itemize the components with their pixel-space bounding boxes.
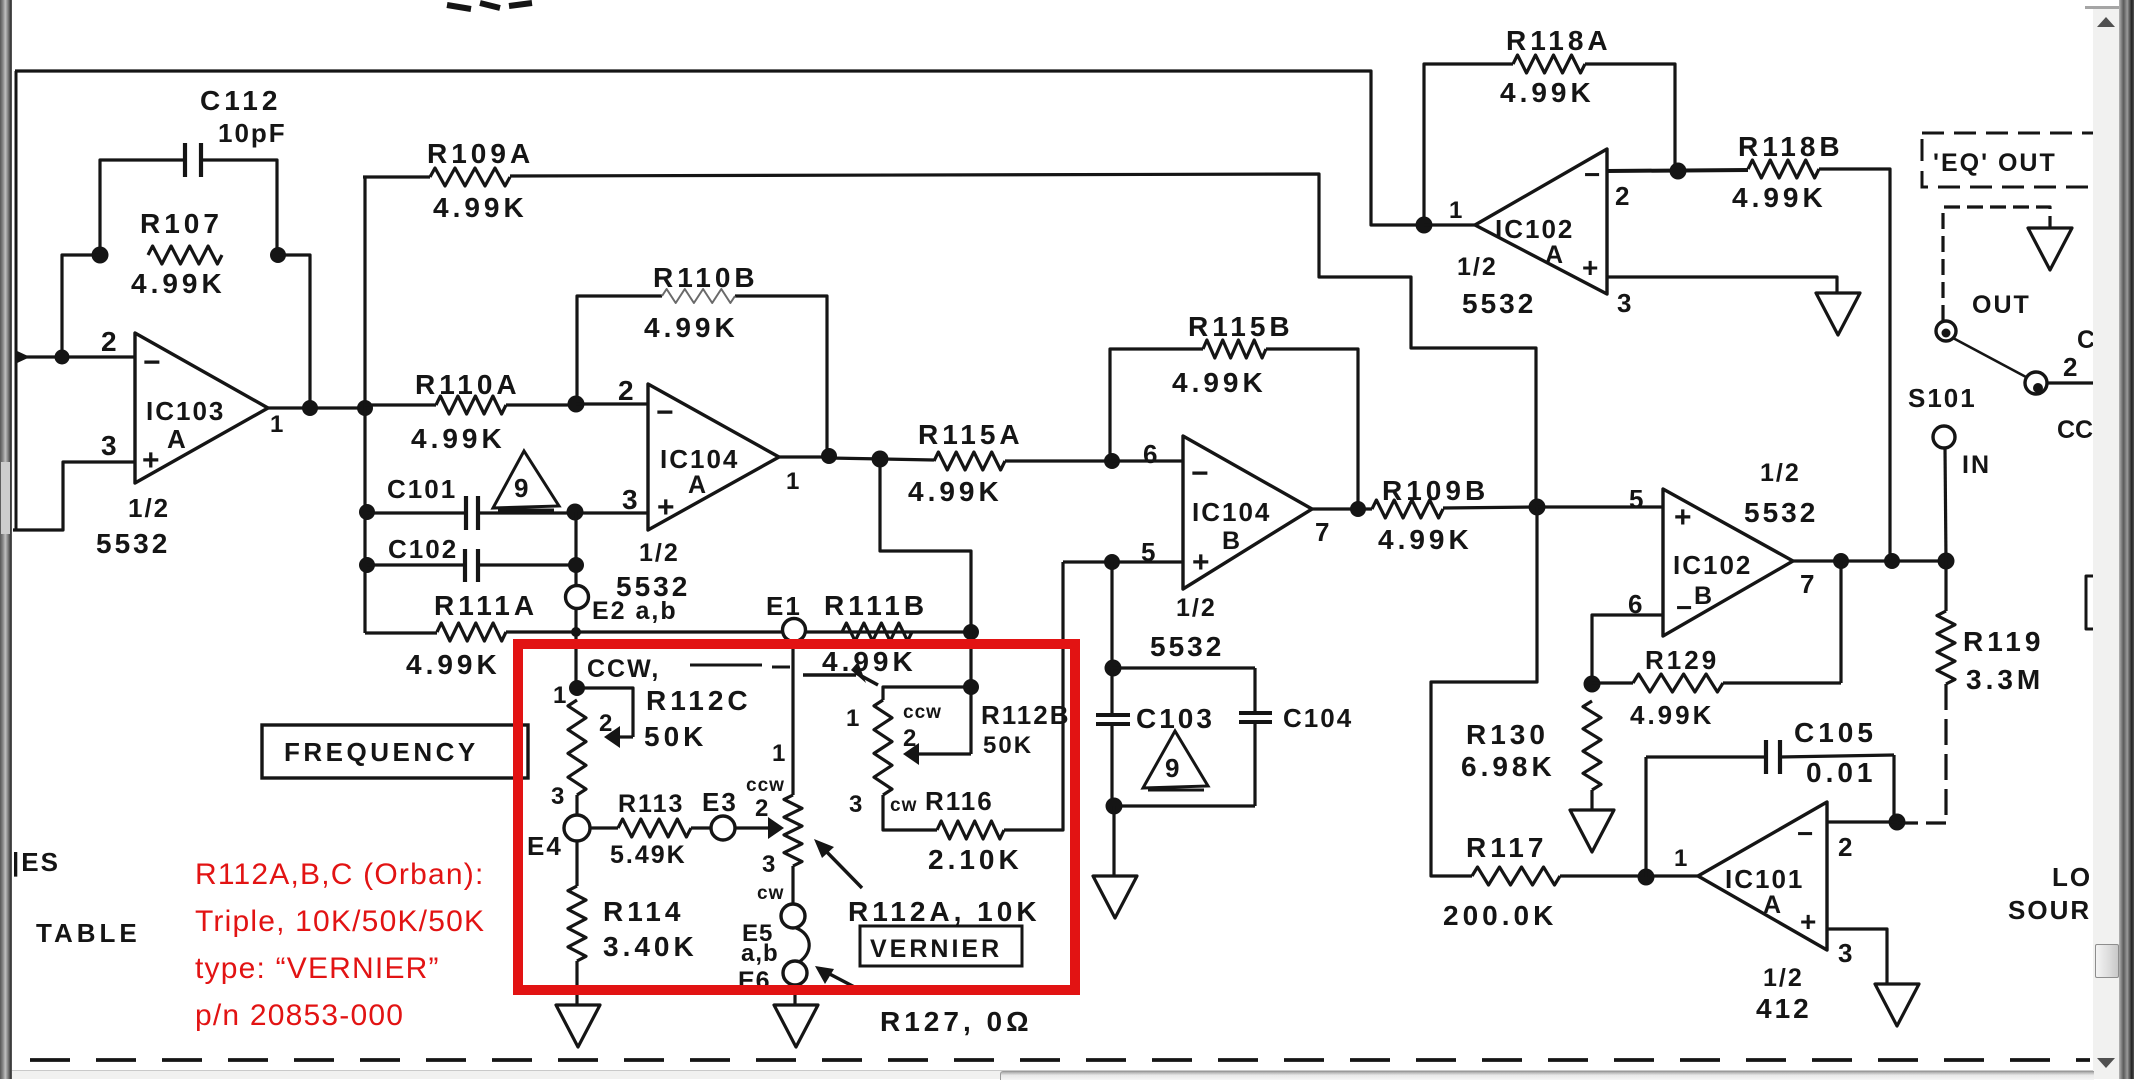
svg-text:7: 7 [1800, 569, 1814, 599]
resistor R110B faint [662, 289, 735, 303]
capacitor C112 [183, 143, 187, 177]
node R112B top [963, 679, 979, 695]
ground below EQ OUT corner [2028, 228, 2072, 270]
svg-text:R115B: R115B [1188, 311, 1294, 342]
wire R118B right leg [1819, 169, 1890, 560]
svg-text:2: 2 [1838, 832, 1852, 862]
svg-text:cw: cw [890, 795, 917, 816]
svg-text:2: 2 [1615, 181, 1629, 211]
svg-text:CCW,: CCW, [587, 655, 660, 683]
op-amp IC103 [135, 333, 268, 483]
svg-text:R112B: R112B [981, 700, 1071, 730]
wire R111A to R111B [506, 630, 970, 633]
wire IC104A pin2 [576, 402, 648, 405]
op-amp IC104A [648, 384, 779, 530]
wire E1 down to R112A [791, 643, 794, 795]
wire C103 to ground [1112, 806, 1115, 876]
node IC102A pin2 [1670, 163, 1687, 180]
vertical net x=365 [363, 177, 366, 633]
scrollbar up arrow [2093, 0, 2119, 40]
wire C103 C104 box top [1112, 666, 1255, 669]
svg-text:1: 1 [786, 468, 799, 495]
potentiometer R112A [784, 795, 802, 866]
wire C104 branch [1253, 668, 1256, 713]
svg-text:4.99K: 4.99K [406, 649, 501, 680]
terminal common of S101 [2025, 372, 2047, 394]
svg-text:4.99K: 4.99K [1500, 77, 1595, 108]
left scan border line [15, 71, 18, 531]
svg-text:VERNIER: VERNIER [870, 935, 1002, 963]
svg-text:SOUR: SOUR [2008, 895, 2091, 925]
wire R129 up to output [1839, 561, 1842, 683]
potentiometer R112C [568, 700, 586, 795]
svg-text:1: 1 [1674, 845, 1687, 872]
svg-text:−: − [1676, 592, 1692, 623]
svg-text:5532: 5532 [616, 571, 690, 602]
svg-text:5: 5 [1141, 537, 1155, 567]
resistor R113 [618, 819, 691, 837]
svg-text:1: 1 [772, 740, 785, 767]
svg-text:R107: R107 [140, 208, 223, 239]
svg-text:B: B [1694, 582, 1712, 610]
svg-text:1/2: 1/2 [1763, 964, 1804, 992]
svg-text:IC103: IC103 [146, 396, 225, 426]
svg-text:5532: 5532 [1744, 497, 1818, 528]
svg-text:B: B [1222, 527, 1240, 555]
wire R117 right [1560, 874, 1698, 877]
svg-text:1/2: 1/2 [1760, 459, 1801, 487]
vertical net below pin3 [574, 512, 577, 688]
svg-text:A: A [688, 471, 706, 499]
svg-text:cw: cw [757, 883, 784, 904]
switch blade S101 [1953, 338, 2026, 377]
svg-text:10pF: 10pF [218, 118, 287, 148]
svg-text:2: 2 [755, 795, 768, 822]
right scrollbar track [2093, 7, 2119, 1079]
test point E5 [781, 904, 805, 928]
node IC102A output [1416, 217, 1433, 234]
scrollbar down arrow [2093, 1050, 2119, 1079]
svg-text:1: 1 [846, 705, 859, 732]
svg-text:R112A, 10K: R112A, 10K [848, 896, 1041, 927]
VERNIER box [860, 926, 1022, 966]
svg-text:9: 9 [514, 473, 528, 503]
wire IC104B output [1312, 507, 1372, 510]
svg-text:R114: R114 [603, 896, 684, 927]
node C102 junction [359, 557, 375, 573]
svg-text:Triple, 10K/50K/50K: Triple, 10K/50K/50K [195, 905, 485, 938]
svg-text:+: + [142, 444, 160, 477]
capacitor C104 [1239, 711, 1272, 715]
svg-text:R112A,B,C (Orban):: R112A,B,C (Orban): [195, 858, 484, 891]
svg-text:1/2: 1/2 [1176, 594, 1217, 622]
svg-text:C104: C104 [1283, 703, 1353, 733]
svg-text:3: 3 [551, 783, 564, 810]
svg-text:3: 3 [1838, 938, 1852, 968]
svg-text:LO: LO [2052, 862, 2092, 892]
node C103 bottom [1106, 798, 1123, 815]
wire IC101 pin2 [1827, 820, 1897, 823]
wire from R107 left node to pin2 net [62, 255, 100, 357]
op-amp IC104B [1183, 436, 1312, 589]
svg-text:5532: 5532 [1462, 288, 1536, 319]
wire IC101 pin3 [1827, 929, 1887, 984]
resistor R111A [437, 623, 506, 641]
resistor R110A [436, 396, 506, 414]
wire pin5 node down to R117 [1431, 507, 1537, 876]
resistor R115A [934, 452, 1005, 470]
wire R118A right leg [1585, 64, 1675, 171]
resistor R130 [1583, 701, 1601, 790]
op-amp IC101A [1698, 802, 1827, 950]
svg-text:R112C: R112C [646, 685, 752, 716]
wire IC102B pin5 [1537, 505, 1663, 508]
wire R110A [365, 403, 436, 406]
svg-text:4.99K: 4.99K [131, 268, 226, 299]
node R112C top [569, 680, 585, 696]
svg-text:4.99K: 4.99K [433, 192, 528, 223]
svg-text:−: − [1191, 457, 1209, 490]
svg-text:|ES: |ES [12, 847, 60, 877]
op-amp IC102B [1663, 489, 1793, 636]
node C101 junction [359, 504, 375, 520]
node IC104A pin3 junction [567, 504, 584, 521]
resistor R118A [1513, 55, 1585, 73]
wire R112B top [883, 687, 971, 700]
svg-text:50K: 50K [983, 732, 1033, 759]
svg-text:4.99K: 4.99K [644, 312, 739, 343]
resistor R116 [937, 821, 1004, 839]
jumper arc E5 to E6 [796, 928, 809, 962]
resistor R119 [1937, 611, 1955, 684]
node C102 right junction [568, 557, 584, 573]
svg-text:R111B: R111B [824, 590, 928, 621]
capacitor C103 wire [1110, 668, 1113, 715]
svg-text:R110B: R110B [653, 262, 759, 293]
wire R109B right [1443, 507, 1537, 508]
wire E6 to ground [793, 985, 796, 1005]
node R115A right [1104, 453, 1120, 469]
svg-text:9: 9 [1165, 753, 1179, 783]
resistor R115B [1203, 340, 1266, 358]
wire R113 to E3 [691, 826, 711, 829]
EQ OUT dashed box [1922, 133, 2122, 187]
svg-text:A: A [1545, 241, 1563, 269]
wire IC104B pin6 [1112, 459, 1183, 462]
wire R115B feedback [1110, 349, 1203, 461]
wire R116 to IC104B pin5 [1004, 562, 1063, 830]
wire IC102B pin6 to R129 [1592, 615, 1663, 684]
svg-text:R117: R117 [1466, 832, 1547, 863]
power triangle 9 near C103 [1143, 731, 1208, 788]
wire pin5 down to C103 [1110, 562, 1113, 668]
node IC103 output a [302, 400, 318, 416]
svg-text:2: 2 [599, 710, 612, 737]
resistor R109B [1372, 500, 1443, 518]
svg-text:R119: R119 [1963, 626, 2044, 657]
svg-text:IC104: IC104 [1192, 497, 1271, 527]
svg-text:4.99K: 4.99K [908, 476, 1003, 507]
svg-text:R110A: R110A [415, 369, 521, 400]
svg-text:R109A: R109A [427, 138, 534, 169]
wiper of R112B [969, 687, 972, 754]
wire R119 bottom dashed [1944, 684, 1947, 822]
svg-text:2.10K: 2.10K [928, 844, 1023, 875]
wire E4 to R113 [590, 826, 618, 829]
wire C105 right leg [1892, 755, 1895, 822]
svg-text:50K: 50K [644, 721, 707, 752]
power triangle 9 near C101 [493, 451, 559, 508]
svg-text:2: 2 [101, 326, 121, 357]
svg-text:TABLE: TABLE [36, 918, 141, 948]
svg-text:IC101: IC101 [1725, 864, 1804, 894]
svg-text:IN: IN [1962, 451, 1991, 479]
svg-text:R115A: R115A [918, 419, 1024, 450]
wire from R107 right node down to output [278, 255, 310, 408]
wire output branch down to R112B [880, 460, 971, 687]
svg-text:5: 5 [1629, 484, 1643, 514]
resistor R118B [1748, 160, 1819, 178]
terminal OUT of S101 [1936, 321, 1956, 341]
wire C112 feedback loop [100, 160, 185, 254]
resistor R107 [148, 246, 222, 264]
svg-text:E1: E1 [766, 591, 802, 621]
svg-text:412: 412 [1756, 993, 1812, 1024]
node C103 top [1105, 660, 1122, 677]
ground below IC101 pin3 [1875, 984, 1919, 1026]
wire IC102B output [1793, 559, 1946, 562]
svg-text:A: A [1763, 891, 1781, 919]
svg-text:−: − [656, 396, 674, 429]
arrow pointing to E6 [822, 970, 864, 992]
svg-text:IC104: IC104 [660, 444, 739, 474]
svg-text:5532: 5532 [1150, 631, 1224, 662]
svg-text:p/n 20853-000: p/n 20853-000 [195, 999, 404, 1032]
ground below C103 [1093, 876, 1137, 918]
svg-text:E4: E4 [527, 831, 563, 861]
right window edge bar [2119, 0, 2134, 1079]
op-amp IC102A reversed [1475, 149, 1607, 294]
svg-text:'EQ' OUT: 'EQ' OUT [1933, 149, 2057, 177]
test point E2 [566, 586, 589, 609]
test point E1 [783, 619, 806, 642]
scrollbar thumb [2095, 944, 2119, 978]
svg-text:R109B: R109B [1382, 475, 1489, 506]
node output R129 [1833, 553, 1849, 569]
ground below R130 [1570, 810, 1614, 852]
node at R107 left [92, 247, 109, 264]
wire IC104A pin3 [577, 511, 648, 514]
node R129 left [1584, 676, 1601, 693]
wire IC103 output [268, 406, 363, 409]
wire C102 [367, 563, 465, 566]
svg-text:C102: C102 [388, 534, 458, 564]
svg-text:1: 1 [1449, 197, 1462, 224]
node output R118B [1884, 553, 1900, 569]
wire box bottom [1114, 804, 1255, 807]
wiper of R112C [577, 688, 633, 737]
svg-text:+: + [1582, 252, 1598, 283]
wire IC104A output [779, 455, 829, 458]
svg-text:5.49K: 5.49K [610, 841, 687, 869]
FREQUENCY box [262, 725, 528, 778]
wire R115A [829, 458, 934, 460]
node R111A cross [571, 627, 581, 637]
partial bracket right edge [2086, 576, 2094, 629]
node on pin5 wire [1104, 554, 1120, 570]
svg-text:C101: C101 [387, 474, 457, 504]
svg-text:A: A [167, 424, 186, 454]
red highlight box [518, 644, 1075, 990]
svg-text:0.01: 0.01 [1806, 757, 1877, 788]
capacitor C101 [464, 496, 468, 530]
node R110A right [568, 396, 585, 413]
bottom scrollbar thumb [1000, 1071, 2094, 1080]
wire IC103 pin2 input [15, 355, 135, 358]
svg-text:2: 2 [618, 375, 638, 406]
wire IC102A pin3 [1607, 277, 1837, 293]
resistor R129 [1592, 681, 1633, 684]
svg-text:4.99K: 4.99K [822, 646, 917, 677]
svg-text:3: 3 [762, 851, 775, 878]
node IC101 pin2 [1889, 814, 1906, 831]
node IC102B pin5 junction [1529, 499, 1546, 516]
partial text fragment cut at top edge [447, 5, 471, 9]
test point E4 [564, 815, 590, 841]
node at R107 right [270, 247, 286, 263]
svg-text:3: 3 [622, 484, 642, 515]
svg-text:ccw: ccw [746, 775, 785, 796]
capacitor C103 [1096, 713, 1130, 717]
svg-text:3: 3 [101, 430, 121, 461]
resistor R114 [575, 841, 578, 886]
svg-text:200.0K: 200.0K [1443, 900, 1557, 931]
node IC104B output [1350, 501, 1366, 517]
svg-text:+: + [1674, 501, 1692, 534]
wire C101 [367, 511, 466, 514]
node IC103 output b [357, 400, 373, 416]
svg-text:4.99K: 4.99K [411, 423, 506, 454]
ground below R114 [556, 1005, 600, 1047]
node on pin2 wire [55, 350, 70, 365]
wire IC102A pin2 [1607, 170, 1748, 171]
svg-text:type: “VERNIER”: type: “VERNIER” [195, 952, 440, 985]
svg-text:OUT: OUT [1972, 291, 2031, 319]
node IC104A output [821, 448, 837, 464]
svg-text:+: + [657, 491, 675, 524]
wire R112B pin3 to R116 [883, 795, 937, 830]
svg-text:R130: R130 [1466, 719, 1549, 750]
svg-text:ccw: ccw [903, 702, 942, 723]
capacitor C102 [463, 549, 467, 582]
wire common to edge [2047, 381, 2093, 384]
svg-text:1/2: 1/2 [639, 539, 680, 567]
svg-text:6.98K: 6.98K [1461, 751, 1556, 782]
wire C105 left leg [1644, 757, 1647, 877]
svg-text:R129: R129 [1645, 645, 1719, 675]
potentiometer R112B [874, 700, 892, 795]
svg-text:2: 2 [2063, 352, 2077, 382]
resistor R117 [1472, 867, 1560, 885]
svg-text:CC: CC [2057, 416, 2093, 444]
svg-text:4.99K: 4.99K [1630, 700, 1714, 730]
wire R110B feedback loop [577, 296, 662, 404]
svg-text:R111A: R111A [434, 590, 538, 621]
svg-text:2: 2 [903, 725, 916, 752]
wire IN down to output net [1945, 448, 1946, 561]
node output R119 [1938, 553, 1955, 570]
wire R119 top [1944, 561, 1947, 611]
bottom scrollbar separator [12, 1070, 2093, 1071]
wire R111A corner [365, 631, 437, 634]
svg-text:7: 7 [1315, 517, 1329, 547]
svg-text:4.99K: 4.99K [1378, 524, 1473, 555]
svg-text:C112: C112 [200, 85, 281, 116]
svg-text:a,b: a,b [741, 940, 779, 967]
svg-text:1/2: 1/2 [128, 493, 170, 523]
svg-text:+: + [1800, 906, 1816, 937]
wire top bus from left edge to IC102A output branch [15, 71, 1416, 225]
wire EQ OUT to ground [1943, 207, 2050, 321]
arrow E3 to R112A wiper [735, 826, 768, 829]
arrow to R111B value [856, 673, 878, 685]
svg-text:3: 3 [849, 791, 862, 818]
svg-text:5532: 5532 [96, 528, 170, 559]
wire IC103 pin3 input [13, 462, 135, 530]
wire R118A left leg [1424, 64, 1513, 225]
svg-text:R127, 0Ω: R127, 0Ω [880, 1006, 1033, 1037]
svg-text:1/2: 1/2 [1457, 253, 1498, 281]
svg-text:R113: R113 [618, 790, 684, 818]
wire IC104B pin5 [1063, 560, 1183, 563]
svg-text:S101: S101 [1908, 383, 1977, 413]
node output branch [872, 451, 889, 468]
svg-text:4.99K: 4.99K [1732, 182, 1827, 213]
node IC101 input [1638, 869, 1655, 886]
bottom scrollbar track [12, 1071, 2093, 1079]
svg-text:3: 3 [1617, 288, 1631, 318]
svg-text:R118A: R118A [1506, 25, 1612, 56]
test point E6 [783, 961, 807, 985]
svg-text:+: + [1192, 546, 1210, 579]
svg-text:E3: E3 [702, 787, 738, 817]
wire IC102A output [1424, 223, 1475, 226]
svg-text:1: 1 [270, 411, 283, 438]
capacitor C105 [1764, 740, 1768, 774]
left window edge bar [0, 0, 12, 1079]
terminal IN of S101 [1933, 426, 1955, 448]
svg-text:IC102: IC102 [1495, 214, 1574, 244]
ground below E6 [774, 1005, 818, 1047]
ground at IC102A pin3 [1816, 293, 1860, 335]
svg-text:−: − [143, 346, 161, 379]
resistor R111B [842, 623, 912, 641]
svg-text:1: 1 [553, 682, 566, 709]
svg-text:−: − [1797, 818, 1813, 849]
svg-text:3.40K: 3.40K [603, 931, 698, 962]
svg-text:4.99K: 4.99K [1172, 367, 1267, 398]
wire C105 [1646, 755, 1766, 758]
wire R109A net with staircase to IC102B pin5 [363, 175, 430, 178]
node R111B right [963, 624, 979, 640]
svg-text:R118B: R118B [1738, 131, 1844, 162]
svg-text:R116: R116 [925, 786, 994, 816]
svg-text:3.3M: 3.3M [1966, 664, 2044, 695]
svg-text:−: − [1584, 159, 1600, 190]
resistor R109A [430, 168, 510, 186]
svg-text:C105: C105 [1794, 717, 1877, 748]
svg-text:6: 6 [1143, 439, 1157, 469]
